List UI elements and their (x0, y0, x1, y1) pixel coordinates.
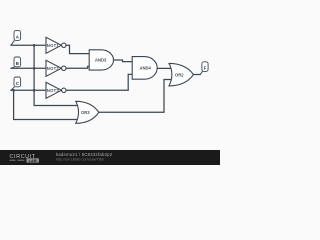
wire NOT2 to AND3 bottom input (66, 66, 89, 68)
svg-text:NOT1: NOT1 (47, 43, 60, 48)
wire branch A-B-C to OR3 top input (34, 45, 79, 105)
wire B input (11, 67, 46, 69)
node junction C branch (33, 89, 36, 92)
svg-text:AND4: AND4 (139, 65, 151, 70)
wire NOT1 to AND3 top input (66, 45, 89, 53)
wire branch C to OR3 bottom input (14, 90, 79, 119)
wire NOT3 to AND4 bottom input (66, 74, 132, 90)
svg-text:OR3: OR3 (81, 110, 90, 115)
svg-text:kademu21 / 8C8332fab3p2: kademu21 / 8C8332fab3p2 (56, 152, 113, 157)
and gate AND3 (89, 50, 113, 70)
wire C input (11, 89, 46, 91)
output pin F (200, 62, 208, 75)
svg-text:AND3: AND3 (95, 58, 107, 63)
or gate OR2 (169, 63, 194, 86)
inverter NOT2 (46, 60, 66, 76)
wire OR2 output (194, 74, 201, 76)
svg-text:http://circuitlab.com/caw7f6b: http://circuitlab.com/caw7f6b (56, 158, 104, 162)
input pin C (11, 77, 21, 90)
wire OR3 output to OR2 bottom input (99, 80, 173, 113)
svg-text:NOT2: NOT2 (47, 66, 60, 71)
input pin B (11, 57, 21, 68)
svg-text:B: B (16, 61, 19, 66)
node junction B branch (33, 67, 36, 70)
inverter NOT1 (46, 37, 66, 53)
svg-text:F: F (204, 66, 207, 71)
footer bar (0, 150, 220, 165)
svg-text:NOT3: NOT3 (47, 88, 60, 93)
input pin A (11, 31, 21, 46)
wire AND3 to AND4 top input (113, 60, 132, 62)
node junction A branch (33, 44, 36, 47)
svg-text:OR2: OR2 (175, 72, 184, 77)
inverter NOT3 (46, 82, 66, 98)
and gate AND4 (132, 57, 157, 80)
CircuitLab logo (10, 154, 39, 163)
svg-text:LAB: LAB (29, 158, 37, 163)
wire A input (11, 44, 46, 46)
or gate OR3 (76, 101, 99, 123)
canvas background (0, 0, 220, 165)
node junction C to OR3 (12, 89, 15, 92)
wire AND4 to OR2 top input (157, 67, 172, 69)
